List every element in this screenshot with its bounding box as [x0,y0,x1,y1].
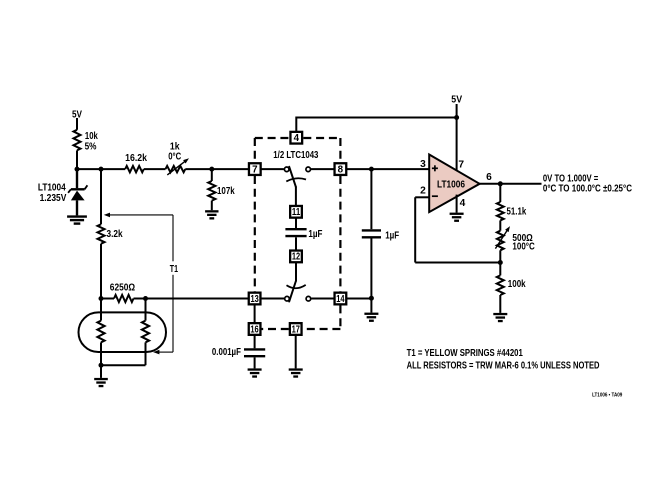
svg-text:8: 8 [338,164,344,175]
svg-text:0°C: 0°C [168,151,181,162]
svg-text:1.235V: 1.235V [40,193,67,204]
svg-text:5V: 5V [72,110,82,121]
svg-text:0°C TO 100.0°C ±0.25°C: 0°C TO 100.0°C ±0.25°C [543,183,633,194]
svg-text:100k: 100k [508,279,526,290]
svg-text:1µF: 1µF [308,229,322,240]
svg-text:17: 17 [292,324,301,335]
svg-text:6250Ω: 6250Ω [110,282,135,293]
svg-text:16.2k: 16.2k [125,153,147,164]
svg-text:16: 16 [250,324,259,335]
svg-text:1µF: 1µF [385,231,399,242]
svg-text:T1 = YELLOW SPRINGS #44201: T1 = YELLOW SPRINGS #44201 [407,348,523,359]
svg-text:10k: 10k [85,131,98,142]
svg-text:0.001µF: 0.001µF [212,347,241,358]
svg-text:ALL RESISTORS = TRW MAR-6 0.1%: ALL RESISTORS = TRW MAR-6 0.1% UNLESS NO… [407,361,600,372]
svg-text:7: 7 [458,160,464,171]
svg-text:2: 2 [420,185,426,196]
svg-text:100°C: 100°C [512,241,535,252]
svg-text:107k: 107k [217,186,235,197]
svg-text:LT1004: LT1004 [38,182,66,193]
svg-text:51.1k: 51.1k [507,207,527,218]
svg-text:4: 4 [460,198,466,209]
svg-text:T1: T1 [170,264,178,275]
svg-text:12: 12 [292,252,301,263]
svg-text:14: 14 [336,294,345,305]
svg-text:3: 3 [420,159,426,170]
svg-text:1/2 LTC1043: 1/2 LTC1043 [273,150,318,161]
svg-text:7: 7 [252,164,258,175]
svg-text:4: 4 [294,133,300,144]
svg-text:LT1006 • TA09: LT1006 • TA09 [592,393,622,399]
svg-text:13: 13 [251,294,260,305]
svg-text:5%: 5% [85,142,97,153]
svg-text:5V: 5V [451,94,462,105]
svg-text:11: 11 [292,207,301,218]
svg-text:3.2k: 3.2k [107,229,123,240]
svg-text:6: 6 [486,172,492,183]
svg-text:LT1006: LT1006 [437,179,465,190]
